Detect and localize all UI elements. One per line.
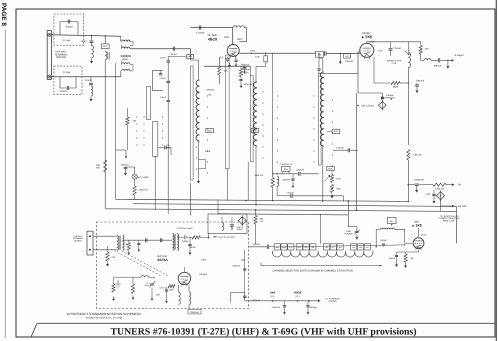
svg-text:215V: 215V — [421, 233, 427, 236]
resistor 4.7K — [239, 69, 242, 77]
svg-text:IF output: IF output — [454, 54, 463, 57]
svg-text:2.2mmf: 2.2mmf — [336, 147, 344, 150]
resistor 10k UHF 2 — [112, 284, 115, 292]
trimmer capacitor GR 1.5mmf — [381, 97, 384, 100]
wire vertical x106 feed — [104, 60, 106, 209]
svg-text:4.7K: 4.7K — [244, 72, 249, 75]
scallop junction ticks — [272, 251, 274, 254]
svg-text:CRYSTAL mount: CRYSTAL mount — [177, 227, 193, 230]
svg-text:100k: 100k — [205, 150, 211, 153]
capacitor 1000mmf cathode — [239, 78, 242, 80]
wire transformer joins — [120, 71, 122, 77]
tube V3 UHF oscillator 3AF4A — [178, 272, 190, 284]
svg-text:100mmf: 100mmf — [121, 164, 129, 167]
wire osc cathode bus — [397, 251, 419, 253]
svg-text:B+: B+ — [459, 184, 463, 187]
svg-text:1000mmf: 1000mmf — [190, 311, 199, 314]
UHF input transformer — [117, 235, 119, 250]
resistor 300k UHF — [168, 285, 175, 288]
wire through switch row — [274, 245, 405, 247]
capacitor 2.2mmf — [198, 25, 200, 29]
svg-text:AGC: AGC — [207, 129, 212, 132]
transformer mixer input winding D — [122, 69, 130, 71]
svg-text:A3: A3 — [366, 246, 369, 249]
wire osc line to fine tuning — [277, 195, 290, 197]
fine tuning trimmer — [356, 227, 358, 231]
svg-text:Mixer: Mixer — [122, 58, 128, 61]
svg-text:680mmf: 680mmf — [283, 179, 291, 182]
inductor osc small coil — [277, 176, 279, 186]
svg-text:70k: 70k — [124, 243, 127, 246]
wire switch feed left — [255, 244, 257, 247]
svg-text:680Ω: 680Ω — [393, 85, 399, 88]
svg-text:1mmf: 1mmf — [81, 40, 87, 43]
dashed box antenna matching upper — [54, 14, 84, 45]
resistor 10K left — [126, 117, 129, 125]
svg-text:(A-): (A-) — [296, 295, 300, 298]
tube V1 RF amplifier 4BC8 — [227, 45, 239, 57]
capacitor 0.5mmf below tube — [226, 58, 230, 60]
ground 47K UHF — [107, 262, 109, 265]
wire from peaking coil down to plate — [240, 28, 247, 42]
resistor 560k 1W — [271, 178, 274, 188]
wire RF line to coil1 — [130, 48, 191, 50]
wire L1 bottom to rail — [190, 183, 192, 216]
resistor 470k AGC divider — [330, 175, 333, 183]
svg-text:A5: A5 — [352, 246, 355, 249]
inductor antenna lower shunt — [90, 77, 92, 82]
resistor 68K 2W — [407, 68, 409, 146]
svg-text:5.6: 5.6 — [346, 55, 350, 58]
inductor mixer plate coil with slug — [391, 41, 421, 43]
transformer mixer input winding A — [120, 36, 122, 41]
transformer core dashes — [121, 54, 131, 56]
svg-text:100mmf: 100mmf — [416, 79, 425, 82]
svg-text:AGC: AGC — [328, 167, 333, 170]
svg-text:UHF IF OUTPUT: UHF IF OUTPUT — [219, 236, 236, 239]
capacitor feedthrough filter — [230, 224, 234, 226]
svg-text:10K: 10K — [410, 257, 414, 260]
inductor RF plate peaking coil — [233, 26, 245, 28]
resistor 15K 6W — [104, 160, 107, 172]
svg-text:1mmf: 1mmf — [160, 77, 166, 80]
svg-text:1mmf: 1mmf — [171, 53, 177, 56]
svg-text:560k 1W: 560k 1W — [255, 174, 265, 177]
switch bracket line — [261, 263, 380, 266]
svg-text:5X8: 5X8 — [270, 291, 275, 295]
svg-text:1500mmf: 1500mmf — [272, 306, 281, 309]
switch wafer contact dots grid — [136, 116, 137, 117]
wire tube top feed — [232, 28, 234, 45]
capacitor series UHF 2 — [160, 238, 162, 242]
svg-text:100: 100 — [318, 54, 322, 57]
wire coil1 top drop — [190, 49, 192, 60]
wire vertical x114 — [115, 63, 117, 199]
capacitor 45mmf — [67, 20, 69, 24]
switch contact dots beside L1 — [196, 91, 197, 92]
svg-text:B+: B+ — [390, 220, 394, 223]
capacitor coil3 top link — [318, 53, 319, 54]
wire rail1 left end drop — [191, 201, 219, 216]
svg-text:47k: 47k — [112, 256, 116, 259]
svg-text:AGC: AGC — [103, 45, 108, 48]
resistor mixer load UHF — [192, 236, 200, 239]
svg-text:140k: 140k — [201, 259, 207, 262]
svg-text:10K: 10K — [133, 120, 137, 123]
inductor antenna shunt coil — [91, 36, 93, 41]
wire mixer vertical main — [357, 73, 359, 93]
AGC box on L2 — [251, 128, 259, 132]
svg-text:©Howard W. Sams & Co., Inc. 19: ©Howard W. Sams & Co., Inc. 1956 — [86, 316, 123, 319]
wire lamp branch to rail — [134, 195, 136, 199]
inductor filter coil — [222, 223, 224, 231]
svg-text:A8: A8 — [325, 246, 328, 249]
folded dipole loop upper — [60, 22, 78, 35]
svg-text:4BC8: 4BC8 — [208, 37, 217, 41]
svg-text:6.8K: 6.8K — [255, 55, 260, 58]
ground 100mmf lamp — [125, 169, 127, 171]
svg-text:4BC8: 4BC8 — [294, 291, 302, 295]
diamond connector UHF IF input — [238, 217, 246, 225]
page right edge line — [495, 0, 497, 341]
svg-text:120Ω 1W: 120Ω 1W — [138, 189, 148, 192]
svg-text:TUNING: TUNING — [344, 232, 353, 235]
svg-text:10mmf: 10mmf — [389, 257, 396, 260]
wire osc feed riser — [375, 229, 377, 247]
svg-text:.2 Long: .2 Long — [62, 71, 71, 74]
svg-text:68K 2W: 68K 2W — [414, 153, 423, 156]
loop lower — [60, 77, 76, 88]
svg-text:0.5: 0.5 — [220, 56, 224, 59]
svg-text:100k: 100k — [336, 188, 341, 191]
svg-text:A13: A13 — [282, 246, 286, 249]
svg-text:3.9mmf: 3.9mmf — [252, 243, 260, 246]
svg-text:MIX: MIX — [156, 294, 160, 297]
wire mixer grid loop — [319, 52, 361, 73]
svg-text:BOARD: BOARD — [56, 56, 65, 59]
UHF antenna terminal board — [87, 231, 93, 255]
svg-text:12K: 12K — [425, 47, 430, 50]
svg-text:125V: 125V — [224, 36, 230, 39]
resistor 100k AGC divider — [330, 185, 333, 193]
svg-text:250V: 250V — [237, 38, 243, 41]
resistor 70k UHF shunt — [127, 243, 130, 251]
junction dot mixer input — [340, 53, 342, 55]
boxed capacitor 100mmf series — [316, 51, 324, 57]
wire x248 vertical — [247, 162, 249, 201]
svg-text:1N82A: 1N82A — [182, 240, 189, 243]
wire bus rail 2 — [133, 204, 457, 207]
svg-text:15mmf: 15mmf — [380, 239, 387, 242]
inductor L2 RF interstage coil — [255, 66, 257, 82]
wire filament feed L — [230, 292, 244, 294]
resistor 120 ohm 1W — [134, 179, 136, 186]
ground 10mmf — [396, 262, 398, 265]
svg-text:GR 1.5mmf: GR 1.5mmf — [362, 105, 374, 108]
inductor L1 RF input coil — [198, 60, 200, 80]
switch contact dots beside L3 — [313, 95, 314, 96]
ground below cathode — [227, 57, 229, 58]
AGC box antenna — [104, 36, 106, 44]
ground AGC divider — [331, 194, 333, 197]
svg-text:300k: 300k — [169, 288, 173, 291]
svg-text:3AF4A: 3AF4A — [157, 258, 168, 262]
wire bus rail 1 — [116, 199, 409, 201]
resistor 10K — [218, 57, 220, 66]
resistor 10K osc bias — [404, 254, 407, 263]
svg-text:A4: A4 — [359, 246, 362, 249]
wire UHF right vertical — [244, 250, 246, 300]
svg-text:7.5mmf: 7.5mmf — [393, 47, 401, 50]
oscillator injection chain 1mmf caps — [168, 55, 186, 57]
svg-text:680mmf: 680mmf — [310, 306, 318, 309]
AGC box on L3 lower — [327, 166, 335, 170]
dashed box antenna matching lower — [54, 66, 82, 94]
wire osc link line — [273, 173, 299, 175]
ground below lower shunt — [90, 97, 92, 100]
svg-text:200mmf: 200mmf — [232, 265, 240, 268]
svg-text:INPUT: INPUT — [237, 228, 244, 231]
ground below antenna shunt coil — [91, 59, 93, 62]
svg-text:A6: A6 — [339, 246, 342, 249]
inductor osc line coil — [141, 276, 149, 278]
coil former rect L2 — [251, 76, 254, 162]
svg-text:47mmf: 47mmf — [59, 90, 67, 93]
wire L2 right former — [272, 54, 274, 172]
wire to filter box — [208, 234, 210, 238]
svg-text:(A-): (A-) — [271, 295, 275, 298]
inductor with core — [105, 52, 107, 60]
dial lamp — [132, 174, 137, 179]
svg-text:1W: 1W — [260, 220, 263, 223]
mechanical tuning link dashed — [115, 251, 169, 276]
svg-text:F: F — [440, 194, 442, 198]
svg-text:1mmf: 1mmf — [160, 96, 166, 99]
svg-text:BOARD: BOARD — [74, 239, 82, 242]
capacitor series IF output — [431, 59, 438, 61]
switch section boxes row — [274, 244, 280, 250]
svg-text:TUNERS #76-10391 (T-27E) (UHF): TUNERS #76-10391 (T-27E) (UHF) & T-69G (… — [111, 326, 417, 337]
svg-text:100mmf: 100mmf — [206, 89, 214, 92]
ground mixer input — [339, 54, 341, 60]
capacitor 7.5mmf — [389, 48, 393, 50]
capacitor 5.6mmf box — [344, 54, 351, 58]
svg-text:.2 Long: .2 Long — [62, 39, 71, 42]
svg-text:PAGE 8: PAGE 8 — [0, 3, 7, 26]
transformer mixer input winding B — [122, 47, 130, 49]
svg-text:A7: A7 — [332, 246, 335, 249]
svg-text:1.5mmf: 1.5mmf — [286, 192, 294, 195]
resistor 82K 1W feed — [254, 216, 257, 225]
wire top B+ rail RF amp — [191, 27, 233, 29]
svg-text:100mmf: 100mmf — [199, 273, 207, 276]
svg-text:5.6mmf: 5.6mmf — [345, 60, 353, 63]
capacitor 1000mmf UHF — [188, 309, 201, 314]
wire UHF ant to transformer — [93, 235, 117, 237]
tube V2 mixer 5X8 — [360, 43, 374, 57]
resistor 100k 2W to B+ — [419, 184, 433, 186]
wire UHF osc vertical — [183, 267, 185, 272]
svg-text:STRING: STRING — [328, 300, 337, 303]
svg-text:68mmf: 68mmf — [434, 65, 441, 68]
capacitor small cathode 2 — [234, 59, 237, 61]
svg-text:1.4V: 1.4V — [378, 50, 383, 53]
title block divider line — [31, 323, 495, 337]
svg-text:AGC: AGC — [334, 130, 339, 133]
wire osc tube top — [418, 228, 420, 237]
svg-text:CHANNEL SELECTOR SWITCH SHOWN: CHANNEL SELECTOR SWITCH SHOWN IN CHANNEL… — [272, 270, 352, 273]
UHF IF filter box — [208, 214, 247, 234]
coil former rect L1 — [191, 66, 194, 180]
svg-text:▲ 5X8: ▲ 5X8 — [411, 223, 421, 227]
svg-text:1000mmf: 1000mmf — [244, 83, 253, 86]
trimmer 1.5-5mmf — [150, 283, 154, 285]
svg-text:CHANNEL CK: CHANNEL CK — [280, 163, 293, 166]
switch contact dots beside L2 — [262, 91, 263, 92]
fuse diamond F — [437, 192, 445, 200]
capacitor 56 mmf — [164, 146, 166, 150]
shield former rect between stages — [226, 55, 230, 169]
svg-text:COIL: COIL — [392, 62, 398, 65]
svg-text:DIAL LAMP: DIAL LAMP — [137, 176, 149, 179]
resistor UHF osc grid — [131, 284, 134, 294]
branch 100mmf right of trimmer — [384, 97, 395, 99]
ground osc bias — [405, 263, 407, 266]
svg-text:470mmf: 470mmf — [243, 68, 251, 71]
AGC box on L3 — [327, 130, 332, 132]
wire RF AGC arrow — [441, 205, 453, 207]
trimmer arrow L3 — [325, 176, 330, 182]
boxed label B+ test — [388, 218, 397, 224]
wire antenna top rail — [51, 35, 121, 37]
inductor UHF osc tank 1 — [179, 292, 181, 304]
svg-text:AGC: AGC — [188, 55, 193, 58]
ground IF output — [447, 60, 448, 61]
wire L2 bottom to rail — [255, 171, 257, 205]
inductor UHF osc tank 2 — [189, 292, 191, 304]
wire cathode bus — [204, 65, 251, 67]
wire osc tube grid — [405, 242, 412, 244]
svg-text:1mmf: 1mmf — [85, 79, 91, 82]
wire mixer plate top — [367, 42, 391, 44]
svg-text:2.2mmf: 2.2mmf — [196, 32, 204, 35]
svg-text:100k: 100k — [241, 259, 246, 262]
svg-text:45mmf: 45mmf — [65, 26, 73, 29]
svg-text:100k 2W: 100k 2W — [435, 188, 445, 191]
wire bus rail 4 — [218, 214, 348, 215]
UHF tuner dashed enclosure — [97, 222, 249, 309]
svg-text:10K: 10K — [224, 70, 229, 73]
link loop L1 bottom — [199, 160, 206, 169]
svg-text:A2: A2 — [276, 246, 279, 249]
inductor L3 oscillator coil — [322, 58, 324, 72]
wire rail riser right — [456, 206, 458, 243]
svg-text:125V: 125V — [250, 50, 256, 53]
rail junction dots — [272, 200, 274, 202]
capacitor 47mmf — [66, 86, 68, 90]
wire RF output line to mixer — [239, 52, 315, 54]
resistor 680 ohm — [374, 82, 391, 84]
VHF antenna terminal board strip — [47, 31, 51, 80]
inductor B+ feed coil — [376, 228, 380, 230]
wire switch riser — [319, 214, 321, 244]
wire bus rail 3 — [106, 209, 457, 212]
svg-text:5mmf: 5mmf — [160, 287, 165, 290]
arrow AGC left — [125, 157, 127, 159]
svg-text:470k: 470k — [336, 178, 341, 181]
hanging rect component at plate line — [265, 53, 267, 56]
svg-text:M601 & 45F: M601 & 45F — [443, 220, 456, 223]
resistor 12K vertical — [419, 45, 422, 54]
wire long vertical x356 — [356, 93, 358, 211]
AGC box on L1 — [206, 129, 214, 133]
svg-text:1mmf: 1mmf — [160, 57, 166, 60]
AGC box coil1 top — [187, 54, 194, 58]
svg-text:5mmf: 5mmf — [145, 284, 150, 287]
svg-text:100mmf: 100mmf — [296, 168, 304, 171]
svg-text:1000mmf: 1000mmf — [414, 178, 424, 181]
coil former rect lower — [153, 122, 158, 157]
svg-text:RF AGC: RF AGC — [458, 205, 467, 208]
svg-text:AGC: AGC — [253, 129, 258, 132]
wire former bottom — [154, 156, 156, 209]
svg-text:100mmf: 100mmf — [386, 94, 394, 97]
capacitor 180mmf filament — [243, 295, 247, 297]
svg-text:B6A: B6A — [284, 168, 289, 171]
wire UHF line top — [123, 239, 173, 241]
wire fine tuning drop — [347, 202, 349, 227]
svg-text:A PHOTOFACT STANDARD NOTATION: A PHOTOFACT STANDARD NOTATION SCHEMATIC — [67, 312, 142, 316]
wire lamp top — [134, 167, 136, 174]
tube V4 oscillator triode 5X8 — [413, 238, 424, 249]
wire filament string — [245, 300, 318, 302]
svg-text:39mmf: 39mmf — [189, 246, 196, 249]
wire L3 bottom to rail — [322, 171, 324, 201]
resistor 47K UHF — [106, 252, 109, 261]
chassis ground UHF — [116, 284, 121, 288]
ground below L1 — [198, 179, 200, 182]
capacitor series UHF 1 — [145, 238, 147, 242]
ground below 700mmf — [244, 69, 246, 71]
svg-text:▲ 5X8: ▲ 5X8 — [361, 35, 372, 39]
crystal diode 1N82A — [181, 235, 187, 239]
svg-text:.047: .047 — [426, 193, 431, 196]
inductor IF output coil — [421, 59, 424, 61]
coil former rect mid — [146, 87, 150, 120]
transformer mixer input winding C — [122, 63, 130, 65]
channel coil scallops — [273, 252, 373, 257]
wire antenna bottom rail — [51, 76, 121, 78]
UHF IF transformer — [173, 234, 175, 251]
arrow UHF IF OUTPUT — [213, 236, 215, 238]
svg-text:NE: NE — [208, 94, 212, 97]
coil former rect L3 — [319, 76, 322, 165]
page left edge line — [4, 30, 6, 338]
socket bracket element — [153, 70, 163, 90]
capacitor shunt UHF — [137, 242, 140, 244]
IF output arrow and label — [452, 59, 455, 62]
